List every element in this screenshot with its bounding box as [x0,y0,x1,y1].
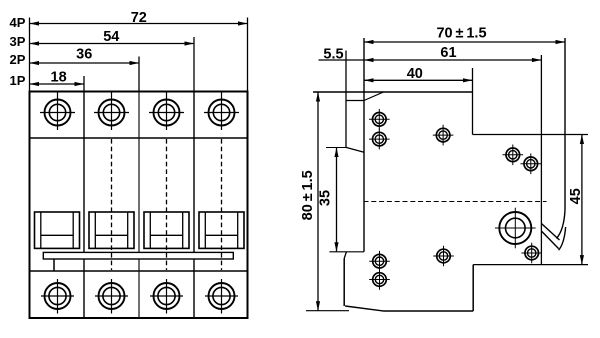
bottom terminal pole 3 [150,279,183,314]
bottom terminal strip top line [30,270,248,272]
top step horizontal (incl. 45 dim extension to the right) [473,134,589,136]
dimension 72 [30,21,248,25]
handle tie bar [43,252,233,259]
module separator line 3 [193,92,195,319]
big screw B1 [495,208,536,249]
svg-text:4P: 4P [10,15,26,30]
screw S9 [369,269,390,290]
top terminal pole 3 [149,92,184,131]
front face inner chamfer [364,92,384,101]
35 dim top extension tick [326,147,346,149]
bottom left chamfer [345,306,383,311]
svg-text:70 ± 1.5: 70 ± 1.5 [436,25,486,41]
toggle handle pole 2 [89,212,134,248]
lower left edge [343,259,345,307]
center dashed line [364,201,547,203]
svg-text:80 ± 1.5: 80 ± 1.5 [300,170,316,220]
svg-text:40: 40 [407,66,423,82]
extension line 36 [138,57,140,92]
top terminal strip bottom line [30,137,248,139]
center dashed line pole 2 [111,139,113,270]
dimension 70±1.5 [364,40,565,44]
bottom terminal pole 1 [41,279,74,314]
DIN clip outer tip curve [559,227,566,250]
extension line 18 [83,76,85,92]
module separator line 2 [138,92,140,319]
bottom terminal pole 2 [95,279,128,314]
svg-text:1P: 1P [10,73,26,88]
dimension 54 [30,41,195,45]
lower left step chamfer [344,252,346,259]
right edge (incl. 70 dim extension above) [564,38,566,210]
top terminal pole 1 [40,92,75,131]
dimension 80±1.5 (vertical) [316,92,320,311]
bottom edge [384,310,474,312]
DIN clip hook inner curve [557,210,566,239]
top terminal pole 2 [94,92,129,131]
screw S5 [521,154,542,175]
screw S2 [369,129,390,150]
lever stub pole 1 [53,259,55,271]
svg-text:61: 61 [440,45,456,61]
extension line left edge [29,18,31,92]
body top edge (incl. 80 dim extension to the left) [313,91,473,93]
svg-text:18: 18 [51,69,67,85]
screw S3 [433,125,454,146]
svg-text:36: 36 [76,47,92,63]
toggle handle pole 1 [35,212,80,248]
top step vertical (incl. 40 dim extension above) [472,68,474,135]
dimension 36 [30,61,140,65]
svg-text:3P: 3P [10,34,26,49]
screw S1 [369,109,390,130]
bottom right step horizontal (incl. 45 dim extension) [473,264,588,266]
screw S6 [521,243,542,264]
front face chamfer [346,147,364,152]
DIN clip lower diagonal [541,231,558,249]
module separator line 1 [83,92,85,319]
bottom right step vertical [472,265,474,311]
lower left step horizontal (incl. 35 dim extension) [329,251,364,253]
center dashed line pole 4 [221,139,223,270]
breaker body outline [30,92,248,319]
dimension 40 [364,78,473,82]
svg-text:72: 72 [131,10,147,26]
svg-text:5.5: 5.5 [323,46,343,62]
dimension 35 (vertical) [334,148,338,252]
dimension 61 / 5.5 shared line [319,58,542,62]
center dashed line pole 3 [166,139,168,270]
DIN clip upper diagonal [541,224,559,241]
bottom terminal pole 4 [205,279,238,314]
inner right line (incl. 61 dim extension above) [540,55,542,265]
toggle handle pole 4 [199,212,244,248]
screw S8 [369,251,390,272]
svg-text:45: 45 [568,188,584,204]
svg-text:2P: 2P [10,52,26,67]
front face edge (incl. 5.5 dim extension above) [345,51,347,148]
dimension 45 (vertical) [580,135,584,265]
front face inner step line [346,100,364,102]
svg-text:54: 54 [103,29,119,45]
extension line right edge [247,18,249,92]
main left edge (incl. 70/61/40 dim extension above) [363,38,365,252]
dimension 18 [30,82,85,86]
80 dim bottom extension [306,310,349,312]
top terminal pole 4 [204,92,239,131]
svg-text:35: 35 [317,190,333,206]
extension line 54 [193,37,195,92]
screw S4 [503,145,524,166]
toggle handle pole 3 [144,212,189,248]
screw S7 [433,246,454,267]
